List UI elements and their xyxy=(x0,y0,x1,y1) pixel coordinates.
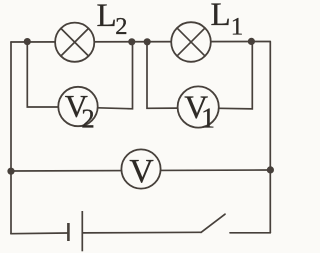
node at top-middle right junction xyxy=(144,38,151,45)
lamp L2 xyxy=(55,23,94,62)
wire battery to switch xyxy=(83,231,201,234)
voltmeter V2 xyxy=(58,87,97,134)
battery B1 xyxy=(68,211,82,251)
wire V1 branch left xyxy=(147,42,178,108)
wire switch to bottom right corner xyxy=(230,232,270,234)
node at top-right junction xyxy=(248,38,255,45)
svg-text:1: 1 xyxy=(201,104,215,135)
svg-text:L: L xyxy=(211,0,231,33)
wire top horizontal xyxy=(11,41,270,44)
wire V2 branch left xyxy=(27,42,58,107)
voltmeter V xyxy=(121,149,160,190)
node at middle-left junction xyxy=(7,168,14,175)
wire right vertical xyxy=(269,42,271,233)
node at top-left junction xyxy=(24,38,31,45)
label L1 xyxy=(211,0,244,40)
wire V1 branch right xyxy=(219,42,253,109)
lamp L1 xyxy=(171,22,211,62)
voltmeter V1 xyxy=(178,86,219,134)
label L2 xyxy=(97,0,128,40)
node at middle-right junction xyxy=(267,166,274,173)
node at top-middle left junction xyxy=(128,38,135,45)
wire V2 branch right xyxy=(98,42,133,109)
wire left vertical xyxy=(10,42,12,234)
svg-text:L: L xyxy=(97,0,117,34)
wire middle horizontal xyxy=(11,170,270,171)
wire bottom left to battery xyxy=(11,232,68,235)
svg-text:1: 1 xyxy=(231,13,244,40)
svg-text:2: 2 xyxy=(81,103,95,133)
switch S1 xyxy=(201,214,225,232)
svg-text:V: V xyxy=(129,153,154,190)
svg-text:2: 2 xyxy=(115,13,127,40)
